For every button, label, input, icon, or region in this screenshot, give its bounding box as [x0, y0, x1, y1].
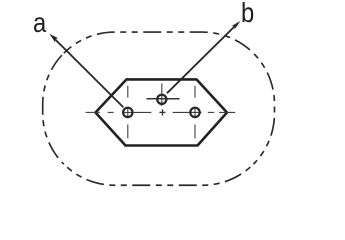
vertical center line of right hole — [194, 86, 196, 139]
label b — [241, 0, 254, 27]
leader arrow a (from left hole to label a) — [49, 34, 123, 108]
phantom outline (dash-dot-dot rounded boundary, 4 phased pieces) — [43, 32, 275, 185]
vertical center line of left hole — [127, 86, 129, 139]
horizontal center line of top hole — [147, 98, 180, 100]
leader arrow b (from top hole to label b) — [167, 21, 241, 93]
center mark + — [159, 109, 165, 115]
top hole — [157, 95, 166, 104]
vertical center line of top hole — [161, 83, 163, 106]
right hole — [190, 108, 199, 117]
horizontal center line (main axis) — [86, 111, 236, 113]
hexagonal plate outline — [96, 79, 228, 145]
left hole — [123, 108, 132, 117]
label a — [33, 9, 46, 37]
